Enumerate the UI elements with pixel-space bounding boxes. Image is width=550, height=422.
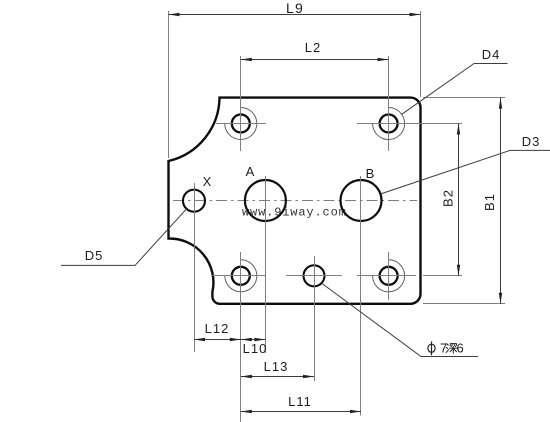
svg-text:L11: L11 xyxy=(288,394,312,409)
dimension L12 xyxy=(194,339,241,341)
hole bottom-middle phi7 xyxy=(304,265,325,286)
leader D4 xyxy=(402,64,508,115)
svg-text:D4: D4 xyxy=(482,47,501,62)
leader D3 xyxy=(380,150,550,194)
dimension L2 xyxy=(241,56,389,151)
counterbore top-left xyxy=(225,108,257,140)
hole X xyxy=(183,190,205,212)
counterbore top-right xyxy=(373,108,405,140)
centerline main (dash-dot through X A B) xyxy=(173,200,417,202)
bolt hole top-left xyxy=(232,115,250,133)
svg-text:B1: B1 xyxy=(482,193,497,211)
dimension B1 xyxy=(423,98,505,304)
svg-text:D3: D3 xyxy=(522,134,541,149)
phi symbol xyxy=(428,342,435,356)
centerline cross bottom-middle hole xyxy=(286,275,342,277)
svg-text:L9: L9 xyxy=(286,0,304,16)
B2 bottom extension xyxy=(423,275,462,277)
extension line bottom-middle hole down to L13 xyxy=(314,256,316,381)
hole B vertical centerline / extension to L11 xyxy=(360,176,362,416)
leader D5 xyxy=(61,209,187,266)
hole X vertical centerline xyxy=(194,183,196,352)
dimension L10 xyxy=(241,339,266,341)
bolt hole top-right xyxy=(380,115,398,133)
svg-text:B2: B2 xyxy=(441,189,456,207)
hole A vertical centerline / extension to L10 xyxy=(265,176,267,353)
svg-text:L12: L12 xyxy=(205,321,230,336)
svg-text:L13: L13 xyxy=(264,359,289,374)
centerline cross bottom-right hole xyxy=(357,275,416,277)
centerline cross top-right hole + B2 extension xyxy=(357,123,462,125)
dimension L9 xyxy=(169,11,421,158)
hole A xyxy=(245,180,286,221)
counterbore bottom-left xyxy=(225,260,257,292)
dimension B2 xyxy=(458,124,460,276)
leader phi7 depth6 xyxy=(322,284,478,357)
bolt hole bottom-left xyxy=(232,267,250,285)
svg-text:L10: L10 xyxy=(243,341,268,356)
centerline cross top-left hole xyxy=(216,123,266,125)
svg-text:D5: D5 xyxy=(85,248,104,263)
svg-text:X: X xyxy=(203,174,212,189)
svg-text:L2: L2 xyxy=(305,40,321,55)
plate outline xyxy=(169,98,421,304)
hole B xyxy=(341,180,382,221)
dimension L13 xyxy=(241,376,314,378)
glyph shen (depth) drawn as strokes xyxy=(446,344,457,354)
svg-text:6: 6 xyxy=(457,341,464,356)
centerline cross bottom-left hole xyxy=(211,275,266,277)
svg-text:B: B xyxy=(366,166,375,181)
svg-text:7: 7 xyxy=(440,341,447,356)
bolt hole bottom-right xyxy=(380,267,398,285)
svg-text:A: A xyxy=(246,164,255,179)
counterbore bottom-right xyxy=(373,260,405,292)
extension line bottom-left hole down to L11 xyxy=(240,252,242,422)
dimension L11 xyxy=(241,411,361,413)
svg-text:www.9iway.com: www.9iway.com xyxy=(242,206,347,220)
